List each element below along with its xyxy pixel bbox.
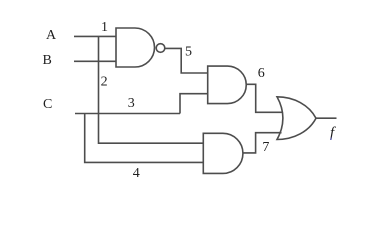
svg-text:5: 5 <box>185 45 192 60</box>
svg-text:C: C <box>43 97 52 112</box>
svg-text:2: 2 <box>101 74 108 89</box>
svg-text:A: A <box>46 28 57 43</box>
svg-text:1: 1 <box>101 20 108 35</box>
svg-text:6: 6 <box>258 66 265 81</box>
svg-text:B: B <box>43 53 52 68</box>
svg-text:7: 7 <box>262 140 269 155</box>
svg-text:f: f <box>330 125 336 141</box>
svg-text:4: 4 <box>133 166 140 181</box>
svg-text:3: 3 <box>128 96 135 111</box>
